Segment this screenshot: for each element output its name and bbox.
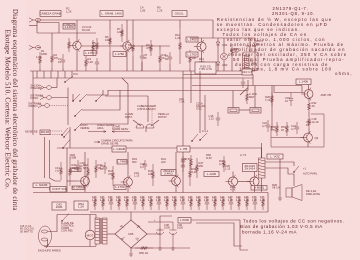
wire stub xyxy=(189,68,191,71)
label L1760 q5 xyxy=(114,185,126,190)
resistor R43 xyxy=(95,160,98,178)
svg-text:120K: 120K xyxy=(117,30,123,34)
wire xyxy=(223,38,225,53)
wire dashed xyxy=(50,131,62,135)
wire xyxy=(238,181,250,183)
connector P2 xyxy=(250,108,261,114)
resistor R41 xyxy=(69,158,72,186)
transistor Q7 xyxy=(228,177,237,186)
wire xyxy=(261,143,263,158)
svg-text:1,2K: 1,2K xyxy=(157,9,163,13)
switch S2D xyxy=(63,140,70,149)
capacitor C23 xyxy=(266,120,270,132)
resistor R8 xyxy=(132,40,135,56)
svg-text:1800: 1800 xyxy=(41,52,47,56)
svg-text:100K: 100K xyxy=(105,38,111,42)
svg-text:Ekotape Modelo 510. Cortesía:: Ekotape Modelo 510. Cortesía: Webcor Ele… xyxy=(3,30,11,190)
wire arrow xyxy=(240,88,248,96)
resistor R69 xyxy=(166,196,169,210)
svg-text:C10 1,5: C10 1,5 xyxy=(242,70,253,74)
wire base Q4pb xyxy=(274,92,304,94)
resistor R5 xyxy=(96,38,99,54)
wire xyxy=(37,47,41,49)
svg-text:CABEZA GRAB.: CABEZA GRAB. xyxy=(39,11,61,15)
ground xyxy=(158,246,162,250)
svg-text:A 4,1: A 4,1 xyxy=(202,129,209,133)
wire xyxy=(217,45,219,62)
resistor R9 xyxy=(150,40,153,56)
svg-text:1,1400: 1,1400 xyxy=(64,25,74,29)
wire xyxy=(196,223,242,246)
label M GRAB xyxy=(72,186,85,190)
capacitor C41 xyxy=(181,196,185,210)
resistor R72 xyxy=(190,196,193,210)
wire stub xyxy=(39,68,41,71)
capacitor C47 xyxy=(229,196,233,210)
transformer T3 power xyxy=(95,218,100,244)
svg-text:A 600Ω: A 600Ω xyxy=(254,186,265,190)
switch S1F xyxy=(75,123,82,130)
wire xyxy=(191,220,248,250)
wire xyxy=(249,38,251,52)
capacitor C31b xyxy=(181,156,185,166)
svg-text:1,15: 1,15 xyxy=(134,174,140,178)
capacitor C38 xyxy=(157,196,161,210)
svg-text:R,50: R,50 xyxy=(206,156,212,160)
wire xyxy=(147,228,160,234)
resistor R67 xyxy=(150,196,153,210)
svg-text:1,15: 1,15 xyxy=(225,167,231,171)
svg-text:500: 500 xyxy=(132,160,137,164)
svg-text:25: 25 xyxy=(100,167,103,171)
wire stub xyxy=(62,68,64,71)
svg-text:R30B: R30B xyxy=(70,156,77,160)
resistor R32 xyxy=(308,101,311,112)
capacitor C2 xyxy=(61,54,65,68)
wire xyxy=(82,90,128,124)
svg-text:L. GRAB. 1400: L. GRAB. 1400 xyxy=(101,11,122,15)
wire xyxy=(56,78,58,88)
wire xyxy=(271,86,273,131)
svg-text:1,2K: 1,2K xyxy=(156,198,162,202)
wire xyxy=(147,96,149,122)
svg-text:6,8K: 6,8K xyxy=(83,166,89,170)
wire xyxy=(44,137,46,178)
svg-text:0,1: 0,1 xyxy=(140,165,144,169)
wire top rail xyxy=(37,19,213,21)
wire stub xyxy=(51,68,53,71)
svg-text:1,2K: 1,2K xyxy=(196,198,202,202)
capacitor C44 xyxy=(205,196,209,210)
resistor R1 xyxy=(39,52,42,68)
resistor R64 xyxy=(126,196,129,210)
wire dashed xyxy=(50,105,69,107)
wire left riser xyxy=(32,71,34,135)
svg-text:CR1: CR1 xyxy=(222,43,228,47)
resistor R75 xyxy=(214,196,217,210)
wire xyxy=(307,142,309,147)
svg-text:1,2K: 1,2K xyxy=(252,198,258,202)
wire xyxy=(308,85,310,90)
svg-text:MICRO: MICRO xyxy=(29,104,38,108)
svg-text:1,2K: 1,2K xyxy=(172,198,178,202)
resistor R63 xyxy=(118,196,121,210)
svg-text:4,7: 4,7 xyxy=(291,127,295,131)
wire bus B xyxy=(108,90,248,92)
svg-text:2,2K: 2,2K xyxy=(88,60,94,64)
svg-text:1,2K: 1,2K xyxy=(212,198,218,202)
label 2N1415 xyxy=(243,164,258,172)
capacitor C21 xyxy=(103,162,107,174)
label L GRAB xyxy=(33,183,50,188)
wire xyxy=(131,45,170,47)
svg-text:CR2: CR2 xyxy=(222,63,228,67)
label A600 xyxy=(251,186,267,191)
wire xyxy=(175,152,177,177)
resistor R66 xyxy=(142,196,145,210)
svg-text:1,2K: 1,2K xyxy=(124,198,130,202)
wire xyxy=(159,46,161,51)
wire xyxy=(130,248,132,252)
wire xyxy=(160,216,172,222)
connector P1 xyxy=(228,108,239,114)
transistor Q3 xyxy=(197,42,206,51)
wire xyxy=(267,193,269,213)
svg-text:ALTO PARL: ALTO PARL xyxy=(303,172,318,176)
switch S4 encendido xyxy=(62,214,69,222)
svg-text:PREAMP: PREAMP xyxy=(31,86,43,90)
svg-text:AZUL: AZUL xyxy=(97,126,104,130)
wire xyxy=(73,73,78,75)
svg-text:50 WATTS: 50 WATTS xyxy=(20,229,33,233)
wire stub xyxy=(159,68,161,71)
svg-text:L.7480: L.7480 xyxy=(117,160,127,164)
svg-text:GRAB. DE PB: GRAB. DE PB xyxy=(101,141,118,145)
resistor R61 xyxy=(102,196,105,210)
wire xyxy=(36,26,38,34)
label L1400 pb xyxy=(296,79,311,85)
svg-text:4K: 4K xyxy=(312,104,315,108)
jack J3 micro xyxy=(40,85,47,89)
svg-text:L.5000: L.5000 xyxy=(180,218,190,222)
wire bottom rail xyxy=(30,70,255,72)
svg-text:1,2K: 1,2K xyxy=(228,198,234,202)
wire xyxy=(52,97,69,99)
wire xyxy=(29,25,37,27)
ground xyxy=(278,196,282,200)
label bias xyxy=(195,62,216,74)
svg-text:10: 10 xyxy=(58,60,61,64)
svg-text:1,2K: 1,2K xyxy=(175,36,181,40)
enclosure PB output xyxy=(271,114,324,147)
label cabeza xyxy=(63,24,75,30)
resistor R60 xyxy=(94,196,97,210)
svg-text:L.1760: L.1760 xyxy=(85,51,95,55)
svg-text:100K: 100K xyxy=(72,166,78,170)
svg-text:MET: MET xyxy=(249,95,255,99)
note: DC voltages footnote xyxy=(240,218,344,234)
svg-text:7,5K: 7,5K xyxy=(179,100,185,104)
label rojo nse xyxy=(40,130,50,135)
svg-text:1000: 1000 xyxy=(164,226,170,230)
wire arrow xyxy=(112,131,130,133)
label cont vol xyxy=(50,187,66,193)
resistor R79 xyxy=(246,196,249,210)
wire xyxy=(44,246,96,248)
switch S1A xyxy=(65,76,73,82)
capacitor C49 electrolytic xyxy=(170,222,177,246)
svg-text:1000: 1000 xyxy=(177,226,183,230)
label L1400 xyxy=(186,37,198,42)
resistor R28 xyxy=(271,92,274,106)
resistor R48 xyxy=(223,156,226,172)
wire xyxy=(109,20,111,30)
svg-text:CA: CA xyxy=(256,42,260,46)
wire jog xyxy=(122,78,128,91)
label L7460 xyxy=(70,168,81,172)
wire xyxy=(57,214,96,216)
transistor Q4 xyxy=(304,90,313,99)
svg-text:1K: 1K xyxy=(281,128,284,132)
label C42 xyxy=(52,202,66,210)
svg-text:4,7: 4,7 xyxy=(262,124,266,128)
wire xyxy=(145,126,147,132)
wire xyxy=(273,86,275,93)
svg-text:150: 150 xyxy=(199,164,204,168)
svg-text:1,2K: 1,2K xyxy=(204,198,210,202)
wire xyxy=(204,95,206,130)
svg-text:1,2K: 1,2K xyxy=(236,198,242,202)
svg-text:1000: 1000 xyxy=(56,205,63,209)
svg-text:47K: 47K xyxy=(146,46,151,50)
svg-text:220: 220 xyxy=(161,160,166,164)
svg-text:1,85: 1,85 xyxy=(140,9,146,13)
resistor R76 xyxy=(222,196,225,210)
wire xyxy=(132,56,134,71)
wire xyxy=(127,152,129,178)
switch S1C xyxy=(80,94,87,101)
ground xyxy=(129,252,133,256)
wire xyxy=(308,98,310,101)
wire emitter stub xyxy=(175,185,177,192)
wire bus A2 xyxy=(183,74,253,76)
wire xyxy=(95,215,97,219)
svg-text:ROJO: ROJO xyxy=(41,130,50,134)
svg-text:L. VOZ: L. VOZ xyxy=(270,154,280,158)
wire tick xyxy=(57,71,59,78)
svg-text:Q9: Q9 xyxy=(315,136,319,140)
svg-text:1,2K: 1,2K xyxy=(66,10,72,14)
svg-text:156: 156 xyxy=(234,50,239,54)
svg-text:1,2K: 1,2K xyxy=(100,198,106,202)
wire xyxy=(67,88,69,126)
resistor R5b xyxy=(92,40,95,56)
capacitor C20 xyxy=(76,160,80,172)
svg-text:R,50: R,50 xyxy=(185,157,191,161)
wire xyxy=(223,60,225,71)
svg-text:L.1760: L.1760 xyxy=(187,52,197,56)
wire xyxy=(126,20,128,42)
speaker LS1 xyxy=(286,188,292,197)
wire xyxy=(49,140,51,178)
wire arrow xyxy=(50,178,62,181)
svg-text:FONO: FONO xyxy=(31,96,39,100)
capacitor C48 electrolytic xyxy=(157,222,164,246)
wire xyxy=(76,50,78,71)
resistor R12 xyxy=(189,50,192,68)
wire xyxy=(179,20,181,28)
svg-text:1,2K: 1,2K xyxy=(78,204,84,208)
head record xyxy=(146,124,154,128)
wire emitter stub xyxy=(254,186,256,192)
resistor R2 xyxy=(51,50,54,68)
capacitor C22 xyxy=(143,160,147,170)
wire arrow xyxy=(88,131,106,133)
wire stub xyxy=(85,70,87,71)
resistor R7 xyxy=(121,24,124,42)
wire tick xyxy=(64,71,66,78)
svg-text:1,2K: 1,2K xyxy=(132,198,138,202)
label L VOZ xyxy=(267,154,283,159)
svg-text:CON R35: CON R35 xyxy=(61,229,73,233)
wire rail bias xyxy=(90,211,268,213)
wire xyxy=(72,94,74,101)
label L GRAB 1400 xyxy=(112,146,126,152)
transistor Q2 xyxy=(123,42,131,50)
head erase xyxy=(136,124,144,128)
wire emitter stub xyxy=(84,185,86,192)
wire xyxy=(190,37,255,39)
transistor Q1 xyxy=(73,41,81,49)
jack J4 fono xyxy=(40,95,47,99)
wire xyxy=(279,159,281,196)
resistor R46 xyxy=(189,162,192,186)
svg-text:7,5K 4,7K: 7,5K 4,7K xyxy=(199,67,212,71)
wire xyxy=(95,244,97,246)
resistor R3 xyxy=(68,38,71,52)
capacitor C5 xyxy=(140,52,144,62)
svg-text:47K: 47K xyxy=(108,172,113,176)
wire xyxy=(76,20,78,41)
svg-text:1,2K: 1,2K xyxy=(188,198,194,202)
svg-text:1,2K: 1,2K xyxy=(220,198,226,202)
svg-text:AMP. PB: AMP. PB xyxy=(321,93,332,97)
wire riser xyxy=(182,71,184,193)
resistor R10 xyxy=(159,50,162,68)
lamp DS1 xyxy=(221,53,228,60)
wire xyxy=(48,215,57,232)
wire xyxy=(109,52,111,71)
svg-text:2N1414: 2N1414 xyxy=(244,166,255,170)
svg-text:5,6K: 5,6K xyxy=(128,46,134,50)
wire xyxy=(84,152,86,177)
jack J1 entrada xyxy=(29,18,36,22)
wire xyxy=(254,86,256,108)
wire xyxy=(301,86,303,93)
svg-text:Bias de grabación 1,03 V-0,5: Bias de grabación 1,03 V-0,5 mA xyxy=(240,224,323,229)
wire xyxy=(51,33,53,50)
label OSCIL xyxy=(172,11,187,17)
resistor R70 xyxy=(174,196,177,210)
svg-text:1A: 1A xyxy=(306,123,309,127)
wire xyxy=(217,38,219,42)
bridge rectifier CR5 xyxy=(115,220,147,248)
svg-text:25: 25 xyxy=(144,56,147,60)
wire stub xyxy=(96,68,98,71)
wire xyxy=(261,148,263,158)
resistor R51 xyxy=(286,122,289,136)
capacitor C30 xyxy=(181,160,185,172)
svg-text:borrada 1,16 V-24 mA: borrada 1,16 V-24 mA xyxy=(242,230,297,235)
wire xyxy=(102,90,104,95)
resistor R33 xyxy=(308,116,311,128)
svg-text:1,2K: 1,2K xyxy=(260,198,266,202)
switch S1D xyxy=(96,94,103,101)
wire xyxy=(141,62,143,71)
wire xyxy=(87,90,108,95)
label L7480 xyxy=(117,160,127,165)
svg-text:1,2K: 1,2K xyxy=(244,198,250,202)
wire pointer xyxy=(151,120,159,126)
wire xyxy=(141,46,143,53)
svg-text:R4 1M: R4 1M xyxy=(82,28,91,32)
switch S2B xyxy=(64,130,70,137)
svg-text:2,4KΩ: 2,4KΩ xyxy=(164,171,173,175)
wire xyxy=(37,22,59,24)
svg-text:L. GRAB: L. GRAB xyxy=(36,183,48,187)
capacitor C24 xyxy=(295,122,299,134)
svg-text:L. GRAB: L. GRAB xyxy=(113,147,125,151)
resistor R81 xyxy=(262,196,265,210)
wire xyxy=(58,23,60,34)
svg-text:1,15: 1,15 xyxy=(209,117,215,121)
svg-text:2N301-Q8, 9-10.: 2N301-Q8, 9-10. xyxy=(272,11,315,16)
wire riser xyxy=(199,71,201,133)
svg-text:1,2K: 1,2K xyxy=(92,198,98,202)
svg-text:1898: 1898 xyxy=(251,62,257,66)
switch S2C xyxy=(200,133,207,140)
switch S2A xyxy=(62,128,68,135)
svg-text:NORM DESV: NORM DESV xyxy=(112,127,128,131)
wire xyxy=(308,128,310,133)
wire xyxy=(66,148,68,192)
wire arrow xyxy=(94,141,100,143)
label L PB 1400 xyxy=(177,146,190,152)
wire xyxy=(232,172,234,177)
label L1760 xyxy=(84,51,96,56)
capacitor C16 xyxy=(289,93,293,107)
wire tick xyxy=(36,71,38,78)
capacitor C3 xyxy=(95,58,99,68)
label 2N1414 xyxy=(161,170,176,176)
svg-text:Todos los voltajes de CC son n: Todos los voltajes de CC son negativos. xyxy=(243,218,344,223)
wire rail row2 bottom xyxy=(33,192,268,194)
transistor Q4 xyxy=(81,177,90,186)
resistor R42 xyxy=(87,158,90,186)
svg-text:L. CONT VOL: L. CONT VOL xyxy=(49,187,68,191)
svg-text:1,8K: 1,8K xyxy=(36,55,42,59)
label L1760b xyxy=(186,52,198,57)
svg-text:M. GRAB: M. GRAB xyxy=(72,186,85,190)
resistor R40 xyxy=(60,162,63,180)
wire bus A xyxy=(33,77,253,79)
svg-text:L.1760: L.1760 xyxy=(115,185,125,189)
wire tick xyxy=(50,71,52,78)
wire pointer xyxy=(133,120,141,126)
wire tick xyxy=(71,71,73,78)
wire corner xyxy=(252,75,254,86)
label C10 xyxy=(242,69,252,75)
